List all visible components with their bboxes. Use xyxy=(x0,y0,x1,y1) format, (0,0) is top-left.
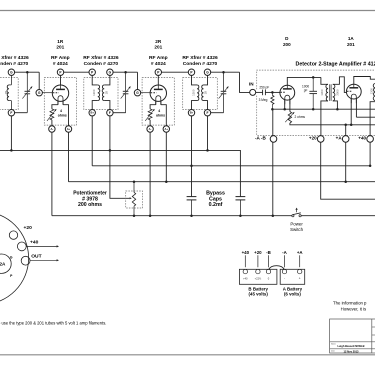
filament legs V1 xyxy=(52,105,58,109)
terminal P of amp 1R xyxy=(57,69,63,75)
svg-text:+A: +A xyxy=(336,136,343,141)
wire: detector plate line xyxy=(287,77,321,85)
svg-text:Date: Date xyxy=(331,349,335,352)
svg-text:1300: 1300 xyxy=(92,89,96,96)
svg-text:Conden # 4270: Conden # 4270 xyxy=(84,61,119,67)
node: bus1/T1-F xyxy=(10,149,13,152)
svg-text:F: F xyxy=(109,111,111,115)
svg-text:D: D xyxy=(285,36,289,41)
wire: +20 terminal down/right xyxy=(321,136,375,200)
svg-text:+40: +40 xyxy=(242,250,250,255)
svg-text:4: 4 xyxy=(60,109,62,113)
node: T3 tank junction xyxy=(222,71,225,74)
svg-text:ohms: ohms xyxy=(58,114,67,118)
wire: C3 bottom to F xyxy=(211,112,224,114)
terminal A- of amp 1R xyxy=(49,126,55,132)
svg-text:RF Amp: RF Amp xyxy=(51,55,70,61)
svg-text:2A: 2A xyxy=(0,262,6,267)
svg-text:G: G xyxy=(10,256,13,260)
node: rheostat line/+A xyxy=(344,124,347,127)
svg-text:1B: 1B xyxy=(104,91,108,95)
svg-text:ohms: ohms xyxy=(156,114,165,118)
node: B+/T3 xyxy=(190,165,193,168)
T3 primary coil xyxy=(197,85,199,101)
terminal B+ of T3 xyxy=(188,110,194,116)
svg-text:1A: 1A xyxy=(348,36,355,41)
wire: B+ (+40) line xyxy=(92,165,370,167)
svg-text:Detector 2-Stage Amplifier # 4: Detector 2-Stage Amplifier # 4125 xyxy=(296,62,375,68)
wire: A- of 2R down to common bus xyxy=(149,132,151,216)
triode V1 (201) xyxy=(52,85,68,101)
svg-text:-A: -A xyxy=(282,250,287,255)
potentiometer # 3978 box xyxy=(126,191,143,208)
arrow: OUT output xyxy=(30,259,57,261)
terminal +40 xyxy=(367,136,374,143)
svg-text:1300: 1300 xyxy=(320,89,324,96)
node: filament line/TA1 secondary xyxy=(336,108,339,111)
svg-text:# 4024: # 4024 xyxy=(151,61,166,67)
wire: TA2 return to +40 xyxy=(370,102,375,136)
battery lead stubs xyxy=(244,255,246,267)
terminal A+ of amp 2R xyxy=(163,126,169,132)
svg-text:F: F xyxy=(207,111,209,115)
svg-text:(45 volts): (45 volts) xyxy=(249,292,269,297)
node: filament line/cap bottom xyxy=(312,108,315,111)
svg-text:+22½: +22½ xyxy=(255,276,262,280)
title block xyxy=(330,319,375,353)
svg-text:1B: 1B xyxy=(4,91,8,95)
wire: +A terminal to +A line xyxy=(345,125,347,182)
svg-text:+40: +40 xyxy=(358,136,366,141)
node: plate line/cap top xyxy=(312,76,315,79)
svg-text:3 Meg: 3 Meg xyxy=(259,98,268,102)
wire: grid drop to V2 grid xyxy=(137,72,139,89)
wire: T2 grid to junction xyxy=(113,71,137,73)
svg-text:0.2mf: 0.2mf xyxy=(209,202,223,208)
AF transformer TA1 xyxy=(321,77,328,84)
page bottom border xyxy=(0,354,375,356)
variable capacitor C1 xyxy=(26,72,28,91)
svg-text:+40: +40 xyxy=(30,239,39,245)
wire: rheostat output line xyxy=(290,123,375,125)
socket pin +20 xyxy=(9,231,17,239)
detector filament legs xyxy=(284,100,286,109)
svg-text:200 ohms: 200 ohms xyxy=(78,202,102,208)
V3 filament legs xyxy=(350,99,352,125)
terminal -A -B xyxy=(270,136,277,143)
svg-text:200: 200 xyxy=(283,42,291,47)
wire: grid drop to V1 grid xyxy=(38,72,40,89)
svg-text:RF Xfmr # 4326: RF Xfmr # 4326 xyxy=(182,55,218,61)
node: bus/pot bottom xyxy=(133,214,136,217)
wire: T3 F down to filament bus xyxy=(207,116,209,150)
svg-text:+20: +20 xyxy=(254,250,262,255)
wire: rheostat to A- (2R) xyxy=(149,120,151,126)
node: filament line/grid leak xyxy=(271,108,274,111)
grid terminal G of amp 1R xyxy=(36,90,42,96)
svg-text:Conden # 4270: Conden # 4270 xyxy=(183,61,218,67)
triode V3 (1A 201) xyxy=(346,84,361,99)
node: B+/+40 terminal xyxy=(369,165,372,168)
svg-text:2 ohms: 2 ohms xyxy=(295,115,306,119)
terminal IN xyxy=(250,89,256,95)
svg-text:-B: -B xyxy=(266,250,271,255)
wire: T1 F down to filament bus xyxy=(10,116,12,150)
wire: A+ of 2R down to +A line xyxy=(165,132,167,182)
tube socket outline xyxy=(0,212,29,305)
svg-text:1B: 1B xyxy=(204,91,208,95)
potentiometer element xyxy=(133,182,135,193)
svg-text:B+: B+ xyxy=(190,111,194,115)
svg-text:Power: Power xyxy=(290,221,303,226)
A battery terminals xyxy=(282,269,286,273)
node: bus1/T2-F xyxy=(109,149,112,152)
terminal A- of amp 2R xyxy=(147,126,153,132)
svg-text:A+: A+ xyxy=(67,127,71,131)
node: filament line/detector leg xyxy=(283,108,286,111)
svg-text:# 4024: # 4024 xyxy=(53,61,68,67)
node: grid leak tap xyxy=(271,91,274,94)
wire: V3 plate to output transformer xyxy=(354,77,375,85)
svg-text:Switch: Switch xyxy=(290,227,303,232)
T1 secondary coil xyxy=(7,85,9,101)
jumper -B to -A xyxy=(269,266,285,270)
node: bus/CB2 xyxy=(239,214,242,217)
wire: plate bus P(1R) to P(T2) xyxy=(64,71,89,73)
svg-text:0: 0 xyxy=(268,276,270,280)
terminal G of T3 xyxy=(204,69,210,75)
svg-text:The information p: The information p xyxy=(333,300,367,305)
wire: IN to grid cap xyxy=(256,91,263,93)
V3 filament stub wire xyxy=(356,116,375,118)
node: +A line / amp2 A+ xyxy=(165,180,168,183)
blocking capacitor 1000 pF xyxy=(312,77,314,91)
potentiometer wiper arrow xyxy=(130,197,132,199)
rheostat R2 4 ohms xyxy=(148,109,152,120)
B battery terminals xyxy=(243,269,247,273)
svg-text:3000: 3000 xyxy=(335,89,339,96)
svg-text:pF: pF xyxy=(304,88,308,92)
T2 secondary coil xyxy=(102,85,104,101)
svg-text:1300: 1300 xyxy=(191,89,195,96)
svg-text:+: + xyxy=(299,277,301,281)
triode V2 (201) xyxy=(150,85,166,101)
wire: T2 F down to filament bus xyxy=(109,116,111,150)
A battery box xyxy=(280,269,305,284)
svg-text:P: P xyxy=(10,274,13,278)
grid terminal G of amp 2R xyxy=(134,90,140,96)
terminal P of amp 2R xyxy=(155,69,161,75)
svg-text:IN: IN xyxy=(249,82,254,87)
terminal +20 xyxy=(317,136,324,143)
variable capacitor C2 xyxy=(125,72,127,91)
rheostat 2 ohms xyxy=(288,112,291,124)
svg-text:B+: B+ xyxy=(90,111,94,115)
node: +A line / pot top xyxy=(133,180,136,183)
svg-text:Name: Name xyxy=(331,343,336,345)
RF amp 1R box xyxy=(44,78,76,126)
wire: -A-B terminal to common bus xyxy=(272,109,274,216)
svg-text:A+: A+ xyxy=(165,127,169,131)
T2 primary coil xyxy=(98,85,100,101)
terminal +A xyxy=(342,136,349,143)
socket tube circle 202A xyxy=(0,254,11,273)
RF amp 2R box xyxy=(142,78,174,126)
page top border xyxy=(0,10,375,12)
wire: rheostat to A- xyxy=(51,120,53,126)
svg-text:1300: 1300 xyxy=(369,88,373,95)
terminal A+ of amp 1R xyxy=(65,126,71,132)
B battery box xyxy=(239,269,277,284)
svg-text:+20: +20 xyxy=(309,136,317,141)
terminal P of T3 xyxy=(188,69,194,75)
wire: A+ of 1R down to +A line xyxy=(68,132,70,182)
triode VD (200 detector) xyxy=(280,85,295,100)
wire: T3 grid to detector jog xyxy=(211,71,240,73)
wire: filament return bus (bus1) xyxy=(0,150,240,196)
node: bus/amp2 A- xyxy=(149,214,152,217)
wire: A- of 1R down to common bus xyxy=(51,132,53,216)
svg-text:A-: A- xyxy=(149,127,152,131)
output transformer TA2 (cut at edge) xyxy=(373,84,375,101)
RF transformer T3 box xyxy=(183,78,218,110)
wire: P to plate of V2 xyxy=(157,75,159,85)
svg-text:However, it is: However, it is xyxy=(341,307,367,312)
wire: detector filament line xyxy=(272,108,375,110)
node: T2 tank junction xyxy=(124,71,127,74)
filament legs V2 xyxy=(150,105,156,109)
svg-text:+20: +20 xyxy=(24,225,33,231)
terminal F of T1 xyxy=(8,110,14,116)
wire: grid cap to detector grid xyxy=(265,91,280,93)
terminal B+ of T2 xyxy=(89,110,95,116)
svg-text:Leigh Bassett N1WLB: Leigh Bassett N1WLB xyxy=(338,344,365,348)
wire: plate bus P(2R) to P(T3) xyxy=(162,71,189,73)
wire: +40 terminal to B+ line xyxy=(369,136,371,166)
terminal F of T2 xyxy=(107,110,113,116)
wire: P to plate of V1 xyxy=(60,75,62,85)
svg-text:Conden # 4270: Conden # 4270 xyxy=(0,61,29,67)
svg-text:1R: 1R xyxy=(57,39,64,44)
svg-text:F: F xyxy=(10,111,12,115)
wire: C2 bottom to F xyxy=(113,112,126,114)
wire: jog down to IN xyxy=(240,72,250,92)
grid leak resistor 3 Meg xyxy=(271,92,273,95)
variable capacitor C3 xyxy=(223,72,225,91)
svg-text:+A: +A xyxy=(297,250,304,255)
wire: common negative bus xyxy=(52,215,292,217)
terminal G of T1 xyxy=(8,69,14,75)
detector unit dashed box xyxy=(257,70,375,135)
svg-text:+40: +40 xyxy=(243,276,248,280)
arrow: +40 output xyxy=(26,245,57,247)
svg-text:(6 volts): (6 volts) xyxy=(284,292,301,297)
svg-text:o use the type 200 & 201 tubes: o use the type 200 & 201 tubes with 5 vo… xyxy=(0,321,106,326)
terminal F of T3 xyxy=(204,110,210,116)
svg-text:OUT: OUT xyxy=(31,254,41,260)
svg-text:12 Nov 2013: 12 Nov 2013 xyxy=(344,349,360,353)
T3 secondary coil xyxy=(202,85,204,101)
power switch SW1 xyxy=(292,215,294,217)
svg-text:A-: A- xyxy=(50,127,53,131)
svg-text:RF Xfmr # 4326: RF Xfmr # 4326 xyxy=(83,55,119,61)
node: rheostat line/V3 left leg xyxy=(350,124,353,127)
socket pin OUT xyxy=(21,256,30,265)
RF transformer T1 box (cut at page edge) xyxy=(0,78,18,110)
wire: pot wiper to bus1 xyxy=(110,150,130,198)
svg-text:RF Xfmr # 4326: RF Xfmr # 4326 xyxy=(0,55,29,61)
svg-text:4: 4 xyxy=(158,109,160,113)
bypass capacitor CB1 xyxy=(187,196,197,198)
svg-text:2R: 2R xyxy=(155,39,162,44)
svg-text:-A -B: -A -B xyxy=(255,136,266,141)
socket pin +40 xyxy=(17,242,26,251)
svg-text:RF Amp: RF Amp xyxy=(149,55,168,61)
svg-text:201: 201 xyxy=(56,45,64,50)
terminal G of T2 xyxy=(107,69,113,75)
node: +A line / +A terminal xyxy=(344,180,347,183)
node: bus/CB1 xyxy=(190,214,193,217)
node: T1 tank junction xyxy=(26,71,29,74)
node: bus/-A-B terminal xyxy=(272,214,275,217)
rheostat R1 4 ohms xyxy=(50,109,54,120)
wire: T1 grid to junction xyxy=(15,71,40,73)
node: bus1/T3-F xyxy=(206,149,209,152)
svg-text:250 pF: 250 pF xyxy=(259,85,269,89)
wire: C1 bottom to F xyxy=(15,112,28,114)
grid capacitor 250 pF xyxy=(262,90,264,96)
wire: +A line xyxy=(69,181,375,183)
RF transformer T2 box xyxy=(84,78,118,110)
svg-text:201: 201 xyxy=(347,42,355,47)
terminal P of T2 xyxy=(89,69,95,75)
svg-text:-: - xyxy=(284,277,285,281)
wire: T2 B+ down then right (B+ line) xyxy=(91,116,93,166)
svg-text:201: 201 xyxy=(154,45,162,50)
wire: T3 B+ down to B+ line, through bypass cap xyxy=(191,116,193,196)
bypass capacitor CB2 xyxy=(236,196,246,198)
